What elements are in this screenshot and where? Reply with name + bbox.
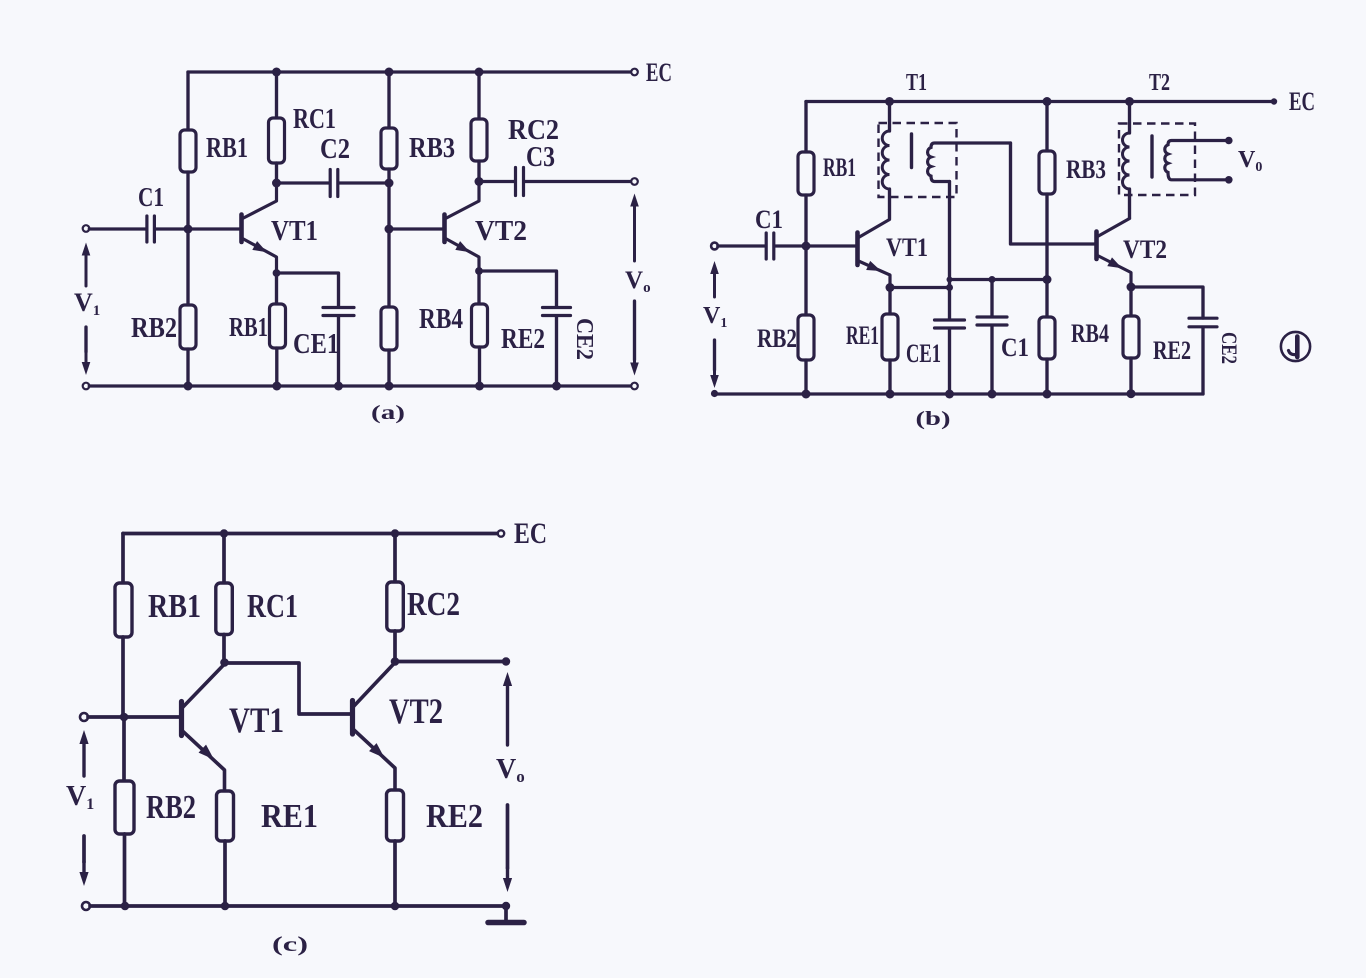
svg-text:CE1: CE1 — [293, 329, 339, 360]
resistor RE2 (b) — [1123, 316, 1139, 358]
wire: T1 primary bottom lead (b) — [888, 189, 891, 219]
transformer T2 core bar — [1150, 136, 1153, 177]
resistor RE1 (c) — [217, 791, 234, 841]
wire: VT2 collector lead (c) — [354, 663, 396, 707]
node: VT1 base junction (b) — [802, 242, 811, 251]
svg-text:RB1: RB1 — [206, 133, 248, 164]
wire: T1 secondary bottom lead (b) — [948, 182, 951, 288]
svg-text:CE2: CE2 — [571, 318, 597, 360]
svg-text:RB4: RB4 — [1071, 319, 1109, 348]
terminal EC (c) open circle — [498, 530, 504, 536]
node: C2-RB3 junction (a) — [385, 179, 394, 188]
wire: RB2 top lead (c) — [122, 717, 126, 781]
figure number circle 4 — [1281, 332, 1310, 361]
resistor RB3 (a) — [381, 128, 397, 169]
arrowhead Vo lower (c) — [503, 868, 512, 892]
svg-text:RB1: RB1 — [229, 312, 268, 342]
terminal Vi bottom (c) — [82, 902, 90, 910]
resistor RB4 (b) — [1039, 317, 1055, 359]
wire: RB1 top lead (c) — [121, 534, 125, 584]
svg-text:RE1: RE1 — [846, 321, 879, 350]
wire: C1 mid top lead (b) — [990, 280, 993, 317]
wire: RB4 bottom lead (b) — [1045, 359, 1048, 394]
arrowhead VT1 emitter (b) — [866, 261, 883, 276]
arrowhead VT2 emitter (c) — [369, 743, 388, 762]
svg-text:RB2: RB2 — [131, 313, 177, 344]
node: ground-RE1 junction (b) — [886, 390, 895, 399]
wire: input to VT1 base (c) — [88, 715, 179, 719]
arrowhead Vi lower (b) — [710, 370, 719, 388]
wire: Vi lower segment (c) — [82, 836, 86, 862]
node: ground-RE1 junction (c) — [221, 902, 230, 911]
wire: VT2 emitter to CE2 (b) — [1131, 287, 1203, 318]
wire: RB2 bottom lead (c) — [123, 834, 127, 906]
wire: C1 to VT1 base (a) — [156, 227, 239, 230]
wire: emitter to RE1 (b) — [888, 288, 891, 315]
wire: VT1 collector to VT2 base (c) — [225, 663, 351, 714]
capacitor CE1 (b) — [935, 320, 965, 328]
wire: VT1 emitter to CE1 (b) — [890, 286, 950, 289]
node: rail-T1 junction (b) — [885, 97, 894, 106]
svg-text:VT1: VT1 — [886, 233, 928, 262]
svg-text:VT2: VT2 — [1123, 235, 1167, 264]
wire: RC1 top lead (a) — [275, 72, 278, 118]
wire: RC1 top lead (c) — [222, 534, 226, 584]
svg-text:C2: C2 — [320, 134, 350, 165]
node: ground-RB4 junction (b) — [1043, 390, 1052, 399]
node: rail-RC1 junction (a) — [272, 68, 281, 77]
node: rail-RC1 junction (c) — [220, 529, 228, 537]
wire: RE1 bottom lead (b) — [888, 360, 891, 394]
wire: collector to output (c) — [395, 660, 503, 664]
wire: RE1 bottom lead (c) — [223, 841, 227, 906]
node: secondary-bias junction (b) — [947, 277, 953, 283]
resistor RE1 (labelled RB1) (a) — [270, 304, 286, 348]
wire: circuit-c top EC supply rail — [123, 532, 498, 536]
capacitor CE1 (a) — [323, 308, 354, 316]
resistor RC1 (a) — [269, 118, 285, 163]
node: VT2 emitter junction (b) — [1127, 283, 1136, 292]
svg-text:(c): (c) — [272, 932, 308, 956]
wire: T1 secondary top to VT2 base (b) — [1011, 143, 1095, 244]
wire: C3 to output (a) — [525, 180, 632, 183]
wire: RB3 top lead (b) — [1045, 102, 1048, 152]
terminal output Vo bottom (c) — [502, 902, 510, 910]
wire: VT2 emitter lead (a) — [446, 239, 480, 272]
transistor VT1 (b) base bar — [855, 233, 860, 266]
wire: C2 to RB3 column (a) — [339, 181, 389, 184]
svg-text:(a): (a) — [371, 402, 405, 424]
resistor RB1 (c) — [115, 583, 132, 637]
inductor T1 secondary winding — [928, 143, 1011, 182]
node: ground-RE2 junction (b) — [1127, 389, 1136, 398]
transistor VT2 (c) base bar — [350, 701, 355, 735]
wire: RB1 top lead (b) — [804, 102, 807, 153]
resistor RC2 (a) — [471, 119, 487, 161]
resistor RB1 (b) — [798, 152, 814, 195]
svg-text:RC1: RC1 — [247, 588, 298, 625]
wire: collector to C2 (a) — [277, 181, 330, 184]
node: VT2 collector junction (a) — [475, 177, 484, 186]
wire: Vo lower segment (a) — [633, 301, 636, 360]
wire: VT1 emitter lead (c) — [183, 731, 225, 791]
wire: circuit-b bottom rail — [715, 392, 1204, 395]
node: base junction VT2 (a) — [385, 225, 394, 234]
wire: RB4 top lead (b) — [1045, 280, 1048, 318]
wire: VT2 collector lead (a) — [446, 182, 480, 219]
resistor RE2 (c) — [387, 790, 404, 841]
svg-text:V1: V1 — [66, 781, 94, 813]
capacitor C1 mid (b) — [977, 317, 1007, 325]
wire: CE1 bottom lead (b) — [948, 329, 951, 394]
capacitor CE2 (b) — [1189, 318, 1217, 327]
svg-text:EC: EC — [514, 517, 547, 550]
svg-text:RB2: RB2 — [146, 789, 196, 826]
terminal input Vi (b) — [711, 243, 718, 250]
svg-text:RE1: RE1 — [261, 798, 318, 835]
wire: emitter to RE1 (a) — [275, 273, 278, 304]
wire: ground stub (c) — [504, 906, 508, 920]
svg-text:T2: T2 — [1149, 70, 1170, 96]
svg-text:CE2: CE2 — [1217, 332, 1242, 364]
node: ground-RB2 junction (a) — [184, 382, 193, 391]
capacitor CE2 (a) — [543, 308, 571, 316]
wire: C1 mid bottom lead (b) — [990, 326, 993, 394]
svg-text:EC: EC — [1289, 87, 1315, 116]
wire: RB3 top lead (a) — [387, 72, 390, 128]
resistor RC2 (c) — [387, 582, 404, 631]
wire: RB1 bottom lead (c) — [121, 637, 125, 717]
wire: CE2 bottom lead (b) — [1201, 328, 1204, 394]
wire: RB1 top lead (a) — [186, 72, 189, 130]
svg-text:VT2: VT2 — [389, 691, 443, 731]
arrowhead VT2 emitter (b) — [1107, 257, 1124, 272]
wire: RC2 bottom lead (c) — [393, 631, 397, 661]
svg-text:T1: T1 — [906, 70, 927, 96]
transformer T1 dashed box — [879, 123, 957, 197]
svg-text:VT2: VT2 — [475, 216, 527, 247]
wire: input to C1 (a) — [89, 227, 145, 230]
wire: emitter node to CE2 (a) — [479, 271, 557, 307]
node: ground-CE1 junction (a) — [334, 382, 343, 391]
wire: Vi lower segment (a) — [84, 327, 87, 352]
svg-text:RB3: RB3 — [1066, 155, 1106, 184]
node: emitter-CE1 junction (b) — [946, 284, 953, 291]
transformer T2 dashed box — [1119, 124, 1195, 196]
resistor RB2 (b) — [798, 315, 814, 360]
resistor RB2 (a) — [180, 305, 196, 349]
wire: T1 primary top lead (b) — [888, 102, 891, 132]
svg-text:RB1: RB1 — [148, 588, 201, 625]
arrowhead Vi lower (c) — [79, 862, 88, 886]
capacitor C1 (a) — [147, 216, 155, 242]
wire: RC2 top lead (c) — [393, 534, 397, 583]
terminal output Vo top (a) — [631, 178, 638, 185]
svg-text:CE1: CE1 — [906, 339, 941, 368]
wire: emitter to RE2 (a) — [477, 271, 480, 304]
wire: RB3 bottom to bias node (b) — [1045, 194, 1048, 280]
node: ground-CE1 junction (b) — [945, 390, 954, 399]
wire: RE1 bottom lead (a) — [275, 348, 278, 386]
terminal EC (b) filled — [1271, 98, 1277, 104]
inductor T2 secondary winding — [1165, 141, 1226, 180]
wire: RC2 bottom lead (a) — [477, 161, 480, 182]
svg-text:RB1: RB1 — [823, 153, 856, 182]
svg-text:V1: V1 — [74, 288, 100, 319]
wire: VT1 collector lead (a) — [243, 183, 277, 219]
resistor RB3 (b) — [1039, 151, 1055, 194]
node: rail-RB3 junction (b) — [1043, 97, 1052, 106]
wire: RB2 top lead (a) — [186, 229, 189, 305]
transformer T1 core bar — [910, 134, 913, 168]
arrow output Vo (a) — [630, 194, 639, 262]
node: rail-RB3 junction (a) — [385, 68, 394, 77]
wire: RE2 bottom lead (b) — [1129, 358, 1132, 394]
svg-text:VT1: VT1 — [229, 700, 284, 740]
svg-text:Vo: Vo — [496, 754, 525, 786]
node: VT2 collector junction (c) — [391, 657, 400, 666]
svg-text:RB4: RB4 — [419, 304, 463, 335]
node: rail-RC2 junction (c) — [391, 529, 399, 537]
wire: CE1 top lead (b) — [948, 288, 951, 320]
node: VT2 emitter junction (a) — [475, 267, 483, 275]
arrowhead VT1 emitter (c) — [199, 745, 218, 764]
capacitor C1 input (b) — [766, 233, 774, 259]
wire: input to C1 (b) — [718, 244, 765, 247]
svg-text:EC: EC — [646, 58, 672, 87]
wire: RB3 to base node VT2 (a) — [387, 169, 390, 229]
node: bottom-left corner (b) — [711, 390, 718, 397]
wire: VT1 collector lead (c) — [183, 664, 225, 708]
node: VT1 collector junction (a) — [272, 179, 281, 188]
svg-text:V0: V0 — [1238, 147, 1262, 175]
wire: RB2 bottom lead (b) — [804, 360, 807, 394]
wire: Vi lower segment (b) — [713, 340, 716, 370]
node: C1 mid junction (b) — [989, 276, 996, 283]
node: VT1 emitter junction (b) — [886, 283, 895, 292]
wire: circuit-a bottom ground rail — [89, 384, 631, 387]
wire: CE1 bottom lead (a) — [337, 316, 340, 386]
wire: RB4 bottom lead (a) — [387, 350, 390, 386]
wire: RC1 bottom lead (a) — [275, 163, 278, 183]
wire: T2 primary top lead (b) — [1128, 102, 1131, 134]
terminal Vo top (b) — [1225, 137, 1233, 145]
terminal output Vo top (c) — [502, 657, 510, 665]
terminal input Vi top (a) — [83, 225, 90, 232]
node: ground-RE1 junction (a) — [272, 382, 281, 391]
wire: RB1 bottom lead (b) — [804, 195, 807, 246]
terminal output Vo bottom (a) — [631, 383, 638, 390]
wire: bias node to RB3 column (b) — [950, 278, 1048, 281]
svg-text:VT1: VT1 — [271, 216, 318, 247]
wire: RE2 bottom lead (c) — [393, 841, 397, 906]
node: rail-T2 junction (b) — [1125, 97, 1134, 106]
transistor VT1 (c) base bar — [179, 702, 184, 736]
arrow input current Vi (a) — [82, 243, 91, 287]
svg-text:C1: C1 — [755, 205, 783, 234]
svg-text:RC2: RC2 — [407, 586, 460, 623]
terminal input Vi (c) — [80, 713, 88, 721]
wire: RC1 bottom lead (c) — [222, 635, 226, 663]
svg-text:RE2: RE2 — [426, 798, 483, 835]
resistor RC1 (c) — [216, 583, 233, 635]
resistor RB1 (a) — [180, 130, 196, 172]
wire: Vo lower segment (c) — [506, 805, 510, 868]
node: ground-RE2 junction (c) — [391, 902, 400, 911]
node: VT1 emitter junction (a) — [273, 269, 281, 277]
ground symbol (c) — [488, 920, 524, 926]
arrow input Vi (b) — [710, 261, 719, 297]
inductor T2 primary winding — [1123, 133, 1130, 189]
node: ground-C1mid junction (b) — [988, 390, 997, 399]
wire: circuit-a top EC supply rail — [188, 70, 631, 73]
wire: VT1 emitter lead (a) — [243, 239, 277, 274]
arrowhead Vo lower (a) — [630, 360, 639, 376]
wire: collector to C3 (a) — [479, 180, 515, 183]
wire: T2 primary bottom lead (b) — [1128, 189, 1131, 218]
wire: RB1 bottom lead to base node (a) — [186, 172, 189, 229]
arrowhead Vi lower (a) — [82, 352, 91, 375]
wire: CE2 bottom lead (a) — [555, 316, 558, 386]
svg-text:V1: V1 — [703, 303, 727, 331]
node: ground-RB4 junction (a) — [385, 382, 394, 391]
wire: RB2 bottom lead (a) — [186, 349, 189, 386]
wire: C1 to VT1 base (b) — [776, 244, 856, 247]
terminal input Vi bottom (a) — [83, 383, 90, 390]
transistor VT1 (a) base bar — [239, 215, 244, 243]
transistor VT2 (b) base bar — [1094, 232, 1099, 260]
svg-text:RE2: RE2 — [501, 324, 545, 355]
node: ground-RB2 junction (c) — [121, 902, 130, 911]
wire: VT1 emitter lead (b) — [859, 261, 891, 288]
node: ground-RE2 junction (a) — [475, 382, 484, 391]
svg-text:(b): (b) — [916, 408, 951, 430]
inductor T1 primary winding — [882, 131, 889, 189]
resistor RE2 (a) — [472, 304, 488, 347]
wire: VT2 emitter lead (c) — [354, 730, 396, 791]
arrow input Vi (c) — [79, 730, 88, 776]
resistor RE1 (b) — [882, 314, 898, 360]
wire: RC2 top lead (a) — [477, 72, 480, 119]
capacitor C3 (a) — [516, 168, 524, 196]
arrowhead VT2 emitter (a) — [455, 241, 472, 256]
wire: RB2 top lead (b) — [804, 246, 807, 315]
svg-text:C1: C1 — [138, 182, 164, 212]
wire: emitter to RE2 (b) — [1129, 287, 1132, 316]
wire: VT2 collector lead (b) — [1098, 219, 1130, 237]
wire: RB4 top lead (a) — [387, 229, 390, 307]
resistor RB4 (a) — [381, 307, 397, 350]
svg-text:RB2: RB2 — [757, 324, 797, 353]
wire: circuit-c bottom rail — [90, 904, 502, 908]
node: rail-RC2 junction (a) — [475, 68, 484, 77]
svg-text:RB3: RB3 — [409, 133, 455, 164]
svg-text:Vo: Vo — [625, 267, 651, 296]
node: VT1 collector junction (c) — [220, 658, 229, 667]
capacitor C2 (a) — [330, 170, 338, 197]
wire: VT2 base wire (a) — [389, 227, 442, 230]
wire: RE2 bottom lead (a) — [478, 347, 481, 386]
terminal EC (a) open circle — [631, 69, 638, 76]
node: base junction VT1 (a) — [184, 225, 193, 234]
wire: VT1 collector lead (b) — [859, 220, 890, 238]
wire: VT2 emitter lead (b) — [1098, 256, 1132, 288]
terminal Vo bottom (b) — [1225, 176, 1233, 184]
transistor VT2 (a) base bar — [442, 215, 447, 243]
svg-text:C1: C1 — [1001, 333, 1029, 362]
svg-text:C3: C3 — [526, 142, 555, 173]
arrow output Vo (c) — [503, 672, 512, 745]
node: ground-CE2 junction (a) — [552, 382, 561, 391]
wire: emitter node to CE1 (a) — [277, 273, 339, 307]
node: ground-RB2 junction (b) — [802, 390, 811, 399]
svg-text:RE2: RE2 — [1153, 336, 1191, 365]
wire: circuit-b top EC supply rail — [806, 100, 1271, 103]
svg-text:RC1: RC1 — [293, 104, 336, 135]
node: VT1 base junction (c) — [120, 713, 129, 722]
arrowhead VT1 emitter (a) — [252, 241, 269, 256]
resistor RB2 (c) — [115, 781, 134, 834]
node: RB3-RB4-bias junction (b) — [1043, 275, 1052, 284]
